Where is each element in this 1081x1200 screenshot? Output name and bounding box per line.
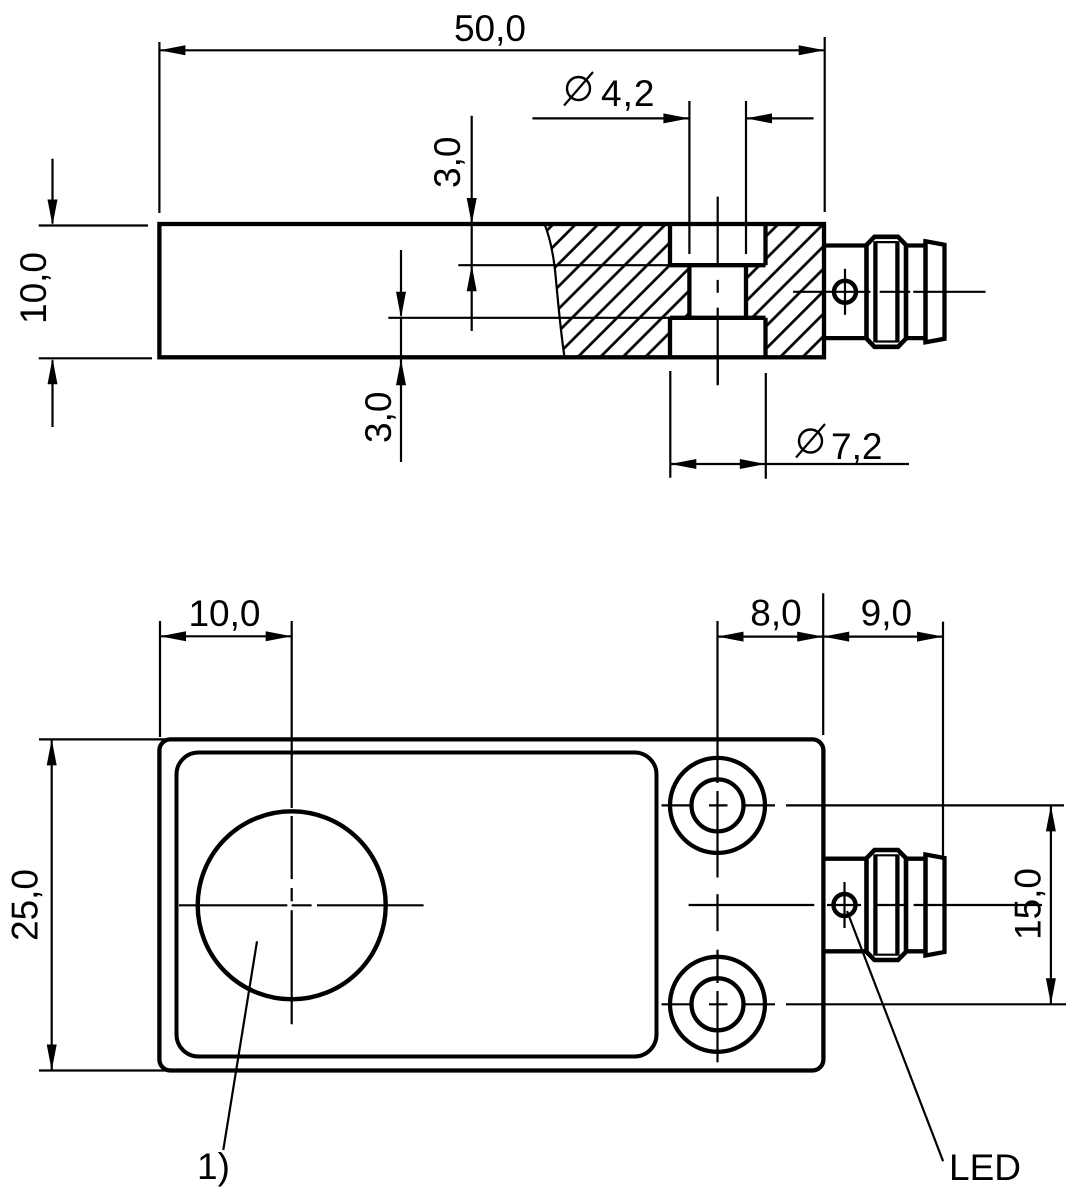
dimension 9,0 line and arrows	[823, 635, 943, 637]
LED hole on connector	[834, 894, 856, 916]
dimension 15,0 line and arrows	[1050, 805, 1052, 1004]
svg-text:1): 1)	[197, 1146, 230, 1187]
connector neck	[824, 243, 867, 247]
vertical center line of sensing circle	[291, 621, 293, 808]
svg-text:8,0: 8,0	[750, 592, 801, 633]
dimension O4,2 line and arrows	[532, 117, 689, 119]
dimension 50,0 extension lines	[158, 42, 160, 213]
svg-text:9,0: 9,0	[861, 592, 912, 633]
svg-text:4,2: 4,2	[601, 73, 655, 114]
svg-text:10,0: 10,0	[188, 593, 260, 634]
sensor body outline (face view)	[159, 739, 823, 1070]
connector axis center line (side view)	[793, 291, 871, 293]
horizontal axis center line through connector (face view)	[689, 904, 815, 906]
dimension 3,0 (bottom counterbore depth) lines	[400, 250, 402, 316]
dimension 3,0 (top counterbore depth) lines	[471, 116, 473, 222]
dimension 10,0 (face offset) line and arrows	[160, 635, 292, 637]
counterbore bottom (O7.2 x 3.0)	[668, 318, 672, 358]
mounting hole top horizontal center line	[662, 804, 694, 806]
sensor body outline (side view)	[159, 224, 824, 357]
break line (partial section boundary)	[545, 224, 565, 357]
dimension 25,0 extension lines	[39, 738, 170, 740]
horizontal center line through sensing circle	[179, 904, 287, 906]
LED hole on connector	[834, 281, 856, 303]
dimension 10,0 arrows	[51, 159, 53, 224]
connector neck	[824, 857, 867, 861]
sensing face circle	[198, 811, 386, 999]
dimension O4,2 text	[567, 77, 590, 100]
hole center line below body (top view)	[717, 359, 719, 384]
dimension 10,0 (face offset) extension line	[159, 621, 161, 737]
connector end cap	[926, 241, 945, 342]
dimension 25,0 line and arrows	[51, 739, 53, 1070]
vertical center line of mounting holes	[716, 621, 718, 783]
svg-text:15,0: 15,0	[1007, 868, 1048, 940]
dimension 8,0 line and arrows	[718, 635, 824, 637]
dimension O7,2 extension lines	[669, 371, 671, 478]
svg-text:LED: LED	[949, 1147, 1021, 1188]
connector collar	[906, 243, 926, 247]
dimension O4,2 extension lines	[688, 101, 690, 254]
hole vertical center line (top view)	[717, 197, 719, 266]
connector collar	[906, 857, 926, 861]
mounting hole top (O7.2/O4.2)	[670, 758, 765, 853]
mounting hole bottom (O7.2/O4.2)	[670, 957, 765, 1052]
counterbore top (O7.2 x 3.0)	[668, 224, 672, 265]
svg-text:10,0: 10,0	[13, 252, 54, 324]
dimension 8,0 / 9,0 extension lines	[822, 593, 824, 735]
svg-text:25,0: 25,0	[5, 869, 46, 941]
svg-text:50,0: 50,0	[454, 8, 526, 49]
active face insert (rounded rectangle)	[177, 753, 657, 1057]
through hole walls (O4.2)	[687, 265, 691, 318]
dimension O7,2 text	[799, 430, 822, 453]
connector knurled ring	[867, 237, 907, 347]
leader line LED	[847, 911, 943, 1161]
connector end cap	[926, 855, 945, 956]
mounting hole bottom horizontal center line	[662, 1003, 694, 1005]
leader line 1) to sensing face	[223, 941, 257, 1150]
svg-text:3,0: 3,0	[427, 137, 468, 188]
dimension 50,0 line and arrows	[159, 49, 824, 51]
svg-text:3,0: 3,0	[358, 392, 399, 443]
svg-text:7,2: 7,2	[831, 426, 882, 467]
dimension 10,0 extension lines	[39, 224, 148, 226]
connector knurled ring	[867, 850, 907, 960]
dimension O7,2 line and arrows	[670, 463, 909, 465]
